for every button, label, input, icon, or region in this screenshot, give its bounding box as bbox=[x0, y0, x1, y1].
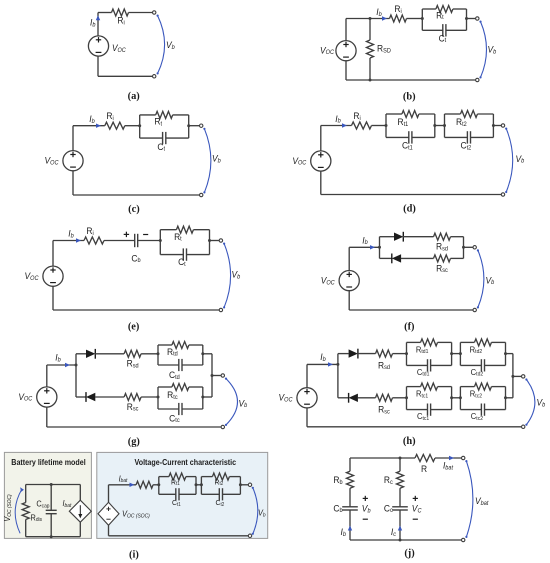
wire (f) top branch lead bbox=[380, 236, 395, 238]
diode D2 (g) bbox=[86, 392, 95, 402]
RC pair R_tc C_tc (g) box bbox=[157, 384, 205, 416]
wire (g) bottom branch lead bbox=[76, 396, 86, 398]
wire (e) C_b to box bbox=[138, 240, 161, 242]
capacitor C_td1 (h) label bbox=[417, 367, 430, 377]
terminal (b) top bbox=[476, 17, 479, 20]
panel label (f) bbox=[404, 321, 414, 332]
resistor R_c (j) bbox=[384, 458, 404, 507]
wire (d) box to terminal bbox=[493, 125, 501, 127]
RC pair R_t2 C_t2 (i) box bbox=[200, 473, 242, 500]
wire (h) source bottom bbox=[306, 408, 308, 427]
RC pair R_td C_td (g) box bbox=[157, 342, 205, 372]
wire (h) R_sc to box1 bbox=[393, 397, 407, 399]
wire (h) top branch lead bbox=[338, 353, 349, 355]
wire (i-right) source top bbox=[109, 485, 137, 503]
current arrow I_b (e) bbox=[68, 228, 81, 243]
node (g) left junction bbox=[75, 354, 78, 397]
wire (e) source bottom bbox=[52, 286, 54, 310]
resistor R_b (j) bbox=[333, 458, 353, 507]
voltage source V_OC (a) bbox=[88, 36, 126, 56]
node (b) top junction bbox=[369, 17, 372, 20]
voltage source V_OC (g) bbox=[18, 387, 57, 407]
wire (f) to split bbox=[349, 246, 379, 248]
svg-text:R: R bbox=[421, 464, 428, 475]
battery lifetime model box bbox=[4, 452, 91, 538]
voltage-current characteristic box bbox=[97, 452, 268, 538]
wire (c) box to terminal bbox=[189, 125, 200, 127]
terminal (e) bottom bbox=[219, 308, 222, 311]
voltage source V_OC (h) bbox=[279, 388, 318, 408]
capacitor C_tc (g) label bbox=[169, 413, 180, 424]
svg-text:(b): (b) bbox=[403, 92, 416, 103]
resistor R_SD (b) bbox=[367, 19, 391, 81]
svg-text:(h): (h) bbox=[403, 436, 416, 447]
resistor R_td1 (h) label bbox=[416, 345, 429, 355]
RC pair R_t C_t (b) box bbox=[421, 6, 468, 37]
node (i) C_cap top bbox=[50, 483, 53, 486]
terminal (e) top bbox=[219, 239, 222, 242]
wire (h) source top bbox=[306, 364, 308, 387]
current arrow I_b (j) bbox=[341, 526, 353, 538]
wire (d) bottom bbox=[321, 194, 501, 196]
current arrow I_b (f) bbox=[362, 235, 375, 250]
panel label (i) bbox=[129, 550, 139, 561]
wire (i-right) to terminal bbox=[240, 484, 248, 486]
wire (h) between top boxes bbox=[452, 353, 461, 355]
wire (f) R_sd to right bbox=[451, 236, 464, 238]
resistor R_t (c) label bbox=[154, 116, 162, 127]
terminal (g) top bbox=[221, 374, 224, 377]
wire (h) top to right bbox=[506, 353, 513, 355]
wire (f) diode to R_sc bbox=[401, 257, 434, 259]
svg-text:Voltage-Current characteristic: Voltage-Current characteristic bbox=[135, 458, 237, 468]
resistor R_sd (f) bbox=[434, 233, 451, 252]
wire (d) between boxes bbox=[435, 125, 445, 127]
panel label (a) bbox=[128, 91, 140, 102]
wire (c) top bbox=[73, 125, 105, 127]
svg-text:(g): (g) bbox=[128, 437, 140, 448]
voltage arrow V_OC(SOC) (i) bbox=[3, 487, 24, 533]
RC pair R_tc2 C_tc2 (h) box bbox=[459, 383, 507, 416]
capacitor C_c (j) bbox=[384, 503, 408, 540]
capacitor C_t2 (d) label bbox=[461, 140, 472, 151]
wire (d) to first RC box bbox=[372, 125, 387, 127]
diode D2 (h) bbox=[349, 393, 358, 403]
wire (h) diode to R_sc bbox=[358, 397, 376, 399]
wire (b) bottom bbox=[346, 79, 475, 81]
terminal (d) top bbox=[501, 124, 504, 127]
capacitor C_td2 (h) label bbox=[471, 367, 484, 377]
node (f) right junction bbox=[462, 237, 465, 259]
terminal (f) bottom bbox=[473, 308, 476, 311]
wire (h) bottom bbox=[307, 426, 521, 428]
wire (f) bottom bbox=[349, 309, 473, 311]
terminal (c) bottom bbox=[200, 193, 203, 196]
resistor R_t1 (d) label bbox=[398, 117, 409, 128]
resistor R_i (b) bbox=[390, 4, 407, 22]
terminal (g) bottom bbox=[221, 425, 224, 428]
terminal (i) bottom bbox=[248, 534, 251, 537]
RC pair R_t2 C_t2 (d) box bbox=[443, 111, 495, 144]
terminal (h) top bbox=[522, 375, 525, 378]
wire (g) diode to R_sd bbox=[95, 353, 124, 355]
diode D1 (g) bbox=[86, 349, 95, 359]
wire (g) to terminal bbox=[212, 375, 221, 377]
wire (a) bottom bbox=[98, 56, 152, 76]
wire (h) between bottom boxes bbox=[452, 397, 461, 399]
node (g) right junction bbox=[211, 354, 214, 397]
resistor R_t2 (d) label bbox=[456, 117, 467, 128]
capacitor C_tc1 (h) label bbox=[417, 412, 429, 422]
voltage-current characteristic title bbox=[135, 458, 237, 468]
terminal (i) top bbox=[248, 483, 251, 486]
wire (c) bottom bbox=[73, 194, 199, 196]
svg-text:(a): (a) bbox=[128, 91, 140, 102]
voltage V_b (c) bbox=[203, 128, 221, 194]
wire (h) to terminal bbox=[513, 375, 521, 377]
capacitor C_t (c) label bbox=[157, 141, 165, 152]
wire (g) top branch lead bbox=[76, 353, 86, 355]
current arrow I_c (j) bbox=[391, 526, 402, 538]
resistor R_t (e) label bbox=[174, 231, 182, 242]
voltage source V_OC (c) bbox=[45, 151, 84, 171]
panel label (j) bbox=[404, 548, 414, 559]
current arrow I_b (g) bbox=[55, 352, 70, 367]
wire (c) source top bbox=[72, 126, 74, 151]
capacitor C_td (g) label bbox=[169, 370, 180, 381]
resistor R_sd (h) bbox=[376, 350, 393, 371]
wire (e) bottom bbox=[53, 309, 219, 311]
wire (h) bottom to right bbox=[506, 397, 513, 399]
RC pair R_td2 C_td2 (h) box bbox=[459, 339, 507, 372]
wire (g) to split bbox=[47, 364, 76, 366]
diode D2 (f) bbox=[392, 254, 401, 264]
node (h) left junction bbox=[336, 354, 339, 398]
voltage V_b (f) bbox=[477, 249, 495, 308]
terminal (a) bottom bbox=[153, 75, 156, 78]
panel label (b) bbox=[403, 92, 416, 103]
capacitor C_t1 (i) label bbox=[172, 498, 181, 508]
wire (g) R_sc to box bbox=[141, 396, 158, 398]
panel label (d) bbox=[403, 204, 416, 215]
terminal (d) bottom bbox=[501, 193, 504, 196]
resistor R_i (c) bbox=[105, 111, 125, 130]
capacitor C_t (e) label bbox=[178, 257, 186, 268]
current arrow I_b (b) bbox=[376, 7, 387, 21]
voltage V_b (b) bbox=[479, 21, 497, 79]
voltage V_b (e) bbox=[223, 243, 241, 309]
panel label (e) bbox=[128, 322, 140, 333]
capacitor C_tc2 (h) label bbox=[471, 412, 483, 422]
wire (i-right) bottom bbox=[109, 525, 249, 536]
voltage V_b (i) bbox=[252, 487, 266, 535]
svg-text:(f): (f) bbox=[404, 321, 414, 332]
dependent current source I_bat (i) bbox=[63, 485, 92, 537]
current arrow I_b (h) bbox=[320, 352, 333, 367]
wire (c) source bottom bbox=[72, 171, 74, 195]
wire (a) top-left vertical bbox=[98, 13, 112, 37]
resistor R_td2 (h) label bbox=[470, 345, 483, 355]
wire (f) R_sc to right bbox=[451, 257, 464, 259]
wire (j) top rail bbox=[350, 457, 415, 459]
wire (d) source bottom bbox=[320, 171, 322, 195]
node (i) C_cap bottom bbox=[50, 535, 53, 538]
diode D1 (f) bbox=[394, 232, 403, 242]
polarity labels V_C (j) bbox=[412, 496, 422, 519]
wire (i-left) bottom rail bbox=[26, 536, 81, 538]
resistor R_sd (g) bbox=[124, 350, 141, 369]
capacitor C_t2 (i) label bbox=[216, 498, 225, 508]
voltage source V_OC (e) bbox=[25, 266, 64, 286]
wire (g) source top bbox=[46, 365, 48, 387]
RC pair R_tc1 C_tc1 (h) box bbox=[405, 383, 453, 416]
resistor R_i (d) bbox=[352, 111, 372, 129]
resistor R (i) bbox=[136, 481, 153, 488]
wire (b) top bbox=[346, 18, 390, 20]
terminal (c) top bbox=[200, 124, 203, 127]
wire (j) bottom rail bbox=[350, 539, 461, 541]
wire (f) source bottom bbox=[348, 291, 350, 310]
wire (b) to RC box bbox=[407, 18, 423, 20]
resistor R_td (g) label bbox=[167, 346, 178, 357]
wire (g) bottom bbox=[47, 426, 221, 428]
current arrow I_b (c) bbox=[89, 114, 101, 128]
wire (i-left) top rail bbox=[26, 484, 81, 486]
wire (c) to RC box bbox=[125, 125, 140, 127]
svg-text:(j): (j) bbox=[404, 548, 414, 559]
node (f) left junction bbox=[378, 237, 381, 259]
resistor R_sc (f) bbox=[434, 255, 451, 274]
RC pair R_t C_t (c) box bbox=[138, 111, 190, 144]
polarity labels V_b (j) bbox=[362, 496, 371, 519]
battery lifetime model title bbox=[11, 458, 85, 468]
resistor R_t1 (i) label bbox=[171, 477, 180, 487]
resistor R_t (b) label bbox=[436, 10, 444, 21]
resistor R_tc1 (h) label bbox=[416, 389, 428, 399]
resistor R_tc (g) label bbox=[167, 390, 178, 401]
resistor R_sc (h) bbox=[376, 394, 393, 415]
svg-text:(d): (d) bbox=[403, 204, 416, 215]
current arrow I_b (a) bbox=[90, 15, 100, 28]
voltage V_b (g) bbox=[225, 378, 248, 427]
wire (f) diode to R_sd bbox=[403, 236, 434, 238]
resistor R_i (e) bbox=[84, 226, 104, 244]
wire (g) bottom box to right bbox=[203, 396, 212, 398]
capacitor C_b (j) bbox=[333, 503, 357, 540]
svg-text:(i): (i) bbox=[129, 550, 139, 561]
current arrow I_bat (j) bbox=[435, 456, 461, 472]
terminal (b) bottom bbox=[476, 78, 479, 81]
RC pair R_td1 C_td1 (h) box bbox=[405, 339, 453, 372]
voltage source V_OC (f) bbox=[321, 271, 360, 291]
svg-text:(e): (e) bbox=[128, 322, 140, 333]
voltage V_bat (j) bbox=[465, 460, 488, 538]
resistor R_tc2 (h) label bbox=[470, 389, 482, 399]
wire (b) box to terminal bbox=[467, 18, 476, 20]
terminal (f) top bbox=[473, 246, 476, 249]
resistor R_i (a) bbox=[112, 9, 129, 27]
wire (g) source bottom bbox=[46, 407, 48, 427]
wire (b) source bottom bbox=[345, 61, 347, 80]
RC pair R_t1 C_t1 (i) box bbox=[157, 473, 197, 500]
svg-text:Battery lifetime model: Battery lifetime model bbox=[11, 458, 85, 468]
wire (h) bottom branch lead bbox=[338, 397, 349, 399]
wire (f) source top bbox=[348, 247, 350, 270]
capacitor C_t1 (d) label bbox=[402, 140, 413, 151]
RC pair R_t C_t (e) box bbox=[159, 226, 211, 261]
voltage source V_OC (d) bbox=[292, 151, 331, 171]
wire (h) to split bbox=[307, 363, 338, 365]
svg-text:(c): (c) bbox=[128, 204, 140, 215]
terminal (j) bottom bbox=[462, 538, 465, 541]
wire (a) top to terminal bbox=[129, 12, 153, 14]
wire (b) source top bbox=[345, 19, 347, 41]
wire (i-right) between boxes bbox=[196, 484, 201, 486]
voltage source V_OC (b) bbox=[320, 41, 356, 61]
capacitor C_cap (i) bbox=[36, 485, 56, 537]
voltage V_b (a) bbox=[157, 15, 176, 75]
node (b) bottom junction bbox=[369, 79, 372, 82]
dependent voltage source V_OC(SOC) (i) bbox=[98, 502, 150, 525]
current arrow I_bat (i) bbox=[119, 474, 135, 487]
wire (h) diode to R_sd bbox=[358, 353, 376, 355]
wire (h) R_sd to box1 bbox=[393, 353, 407, 355]
RC pair R_t1 C_t1 (d) box bbox=[385, 111, 437, 144]
wire (f) bottom branch lead bbox=[380, 257, 392, 259]
voltage V_b (h) bbox=[525, 378, 546, 425]
diode D1 (h) bbox=[349, 349, 358, 359]
wire (e) source top bbox=[52, 241, 54, 267]
panel label (c) bbox=[128, 204, 140, 215]
wire (e) to C_b bbox=[104, 240, 135, 242]
terminal (j) top bbox=[462, 456, 465, 459]
wire (e) box to terminal bbox=[210, 240, 220, 242]
wire (f) to terminal bbox=[464, 246, 473, 248]
wire (g) R_sd to box bbox=[141, 353, 158, 355]
capacitor C_t (b) label bbox=[439, 33, 447, 44]
node (j) bottom junction bbox=[399, 539, 402, 542]
wire (g) top box to right bbox=[203, 353, 212, 355]
panel label (h) bbox=[403, 436, 416, 447]
panel label (g) bbox=[128, 437, 140, 448]
wire (i-right) to box1 bbox=[153, 484, 159, 486]
resistor R (j) bbox=[415, 455, 435, 475]
node (j) top junction bbox=[399, 457, 402, 460]
terminal (h) bottom bbox=[522, 425, 525, 428]
wire (e) top bbox=[53, 240, 84, 242]
current arrow I_b (d) bbox=[335, 113, 347, 127]
voltage V_b (d) bbox=[505, 128, 525, 194]
resistor R_sc (g) bbox=[124, 394, 141, 413]
wire (d) top bbox=[321, 125, 352, 127]
wire (d) source top bbox=[320, 126, 322, 152]
terminal (a) top bbox=[153, 11, 156, 14]
resistor R_dis (i) bbox=[22, 485, 42, 537]
node (h) right junction bbox=[511, 354, 514, 398]
capacitor C_b (e) bbox=[124, 232, 149, 265]
resistor R_t2 (i) label bbox=[215, 477, 224, 487]
wire (g) diode to R_sc bbox=[95, 396, 124, 398]
